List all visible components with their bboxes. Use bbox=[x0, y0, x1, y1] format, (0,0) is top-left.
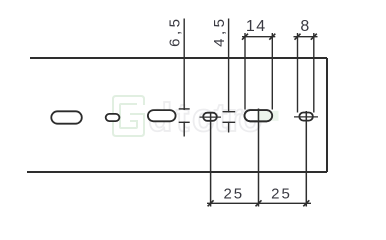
slot 3 (14x6.5) bbox=[148, 110, 176, 121]
extension line slot5 center down bbox=[258, 109, 260, 207]
tick at 306.3 bbox=[303, 200, 309, 206]
rail bottom edge bbox=[27, 171, 327, 173]
watermark green tint over slot 5 bbox=[257, 111, 279, 121]
extension lines 14 bbox=[245, 33, 272, 110]
rail top edge bbox=[30, 57, 327, 59]
hole 2 (8x4.5) bbox=[106, 114, 120, 121]
slot 1 (14x6.5) bbox=[51, 111, 82, 123]
svg-text:14: 14 bbox=[246, 18, 267, 35]
dimension 4,5 line bbox=[223, 19, 236, 133]
tick 8 right bbox=[311, 34, 317, 40]
dimension 8 line bbox=[294, 36, 318, 38]
tick 8 left bbox=[295, 34, 301, 40]
svg-text:6,5: 6,5 bbox=[167, 16, 184, 47]
extension line hole6 center down bbox=[305, 111, 307, 207]
hole 6 (8x4.5) bbox=[299, 113, 313, 121]
dimension 14 line bbox=[242, 36, 275, 38]
hole 4 (8x4.5) bbox=[203, 113, 217, 121]
dimension 25-25 line bbox=[207, 202, 311, 204]
extension lines 8 bbox=[298, 33, 314, 113]
svg-text:t: t bbox=[176, 96, 189, 140]
tick at 210.6 bbox=[208, 200, 214, 206]
svg-text:4,5: 4,5 bbox=[211, 16, 228, 47]
tick 14 left bbox=[242, 34, 248, 40]
rail right edge bbox=[326, 58, 328, 172]
svg-text:25: 25 bbox=[223, 186, 244, 203]
extension line hole4 center down bbox=[210, 112, 212, 207]
centerline hole 4 horizontal bbox=[200, 116, 222, 118]
svg-text:25: 25 bbox=[271, 186, 292, 203]
tick at 258.5 bbox=[256, 200, 262, 206]
dimension 6,5 line bbox=[179, 19, 190, 137]
slot 5 (14x6.5) bbox=[245, 110, 273, 121]
centerline hole 6 horizontal bbox=[294, 116, 318, 118]
watermark logo G (outline) bbox=[113, 96, 144, 136]
svg-text:8: 8 bbox=[300, 18, 309, 35]
tick 14 right bbox=[269, 34, 275, 40]
watermark text (outline letters) bbox=[148, 96, 262, 140]
